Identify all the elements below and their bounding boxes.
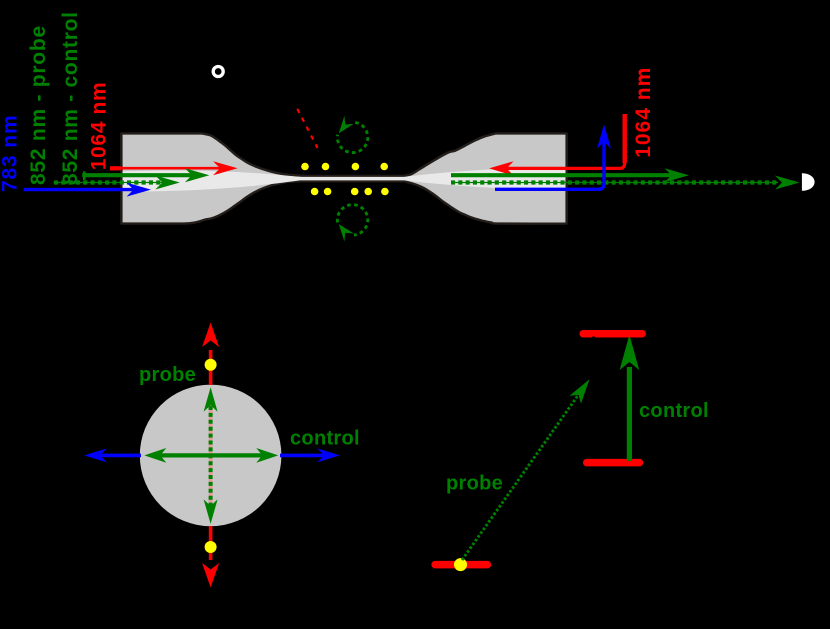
svg-text:852 nm - probe: 852 nm - probe [27, 25, 50, 185]
783 nm beam arrow left (blue, rightward) [24, 183, 151, 197]
svg-text:1064 nm: 1064 nm [632, 67, 655, 158]
fiber light core wedge [123, 167, 566, 191]
blue horizontal polarization right arrow [280, 448, 340, 462]
fiber body (tapered nanofiber, gray with dark outline) [121, 133, 566, 223]
green probe polarization (vertical dotted double arrow) [204, 387, 218, 524]
fiber cross-section circle [140, 385, 282, 527]
circulation arrow top (green dashed circle) [337, 116, 367, 153]
svg-text:probe: probe [139, 364, 196, 386]
excited level bar [583, 330, 642, 338]
svg-text:control: control [639, 400, 709, 422]
svg-text:783 nm: 783 nm [0, 115, 22, 192]
atoms above waist (yellow) [301, 163, 388, 171]
white circle marker [213, 67, 223, 77]
svg-text:probe: probe [446, 473, 503, 495]
circulation arrow bottom (green dashed circle) [337, 205, 367, 242]
svg-text:1064 nm: 1064 nm [88, 82, 111, 171]
1064 nm input right (red, leftward arrow with right-angle feed) [489, 114, 627, 176]
atom on red axis top (yellow) [205, 359, 217, 371]
red vertical polarization top arrow [202, 323, 219, 386]
svg-text:control: control [290, 428, 360, 450]
detector (white half-disc) [802, 173, 815, 191]
852 control beam arrow left (green solid, rightward) [82, 168, 209, 182]
852 probe output (green dotted, rightward) [451, 176, 800, 190]
svg-text:852 nm - control: 852 nm - control [59, 11, 82, 185]
atoms below waist (yellow) [311, 188, 389, 196]
852 control output (green solid, rightward) [451, 168, 689, 182]
ground level bar [435, 561, 487, 569]
783 nm output (blue, up arrow with right-angle feed) [495, 124, 611, 189]
green control polarization (horizontal solid double arrow) [144, 448, 278, 463]
probe transition arrow (green dotted, diagonal) [462, 379, 590, 560]
852 probe beam arrow left (green dotted, rightward) [54, 176, 180, 190]
red dashed pointer line [297, 109, 317, 148]
1064 nm beam arrow left (red, rightward) [110, 161, 238, 175]
red vertical polarization bottom arrow [202, 526, 219, 588]
intermediate level bar [587, 459, 640, 467]
salmon underlay for probe axis [209, 398, 213, 514]
atom on ground level (yellow) [454, 558, 467, 571]
control transition arrow (green solid, upward) [620, 335, 640, 461]
atom on red axis bottom (yellow) [205, 541, 217, 553]
blue horizontal polarization (783) left arrow [84, 448, 141, 462]
